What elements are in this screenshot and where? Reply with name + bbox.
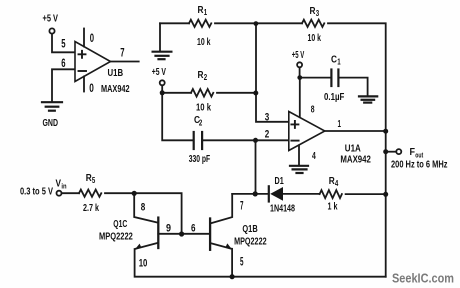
- svg-text:10 k: 10 k: [308, 33, 322, 44]
- svg-text:0.1µF: 0.1µF: [324, 92, 344, 103]
- svg-text:7: 7: [240, 201, 244, 213]
- svg-text:Q1B: Q1B: [242, 223, 258, 235]
- svg-text:out: out: [415, 150, 423, 159]
- svg-text:6: 6: [191, 223, 196, 235]
- svg-text:5: 5: [240, 256, 244, 268]
- svg-text:2: 2: [204, 73, 208, 82]
- svg-text:2: 2: [265, 129, 270, 141]
- svg-text:3: 3: [265, 111, 270, 123]
- svg-text:5: 5: [92, 176, 96, 185]
- svg-text:MPQ2222: MPQ2222: [234, 236, 267, 248]
- svg-text:330 pF: 330 pF: [189, 154, 211, 165]
- svg-text:1: 1: [204, 8, 208, 17]
- svg-text:0: 0: [89, 83, 94, 95]
- svg-text:1: 1: [338, 118, 342, 130]
- svg-text:0.3 to 5 V: 0.3 to 5 V: [20, 186, 53, 197]
- svg-text:0: 0: [90, 33, 94, 45]
- svg-text:7: 7: [120, 46, 125, 60]
- svg-text:9: 9: [166, 223, 171, 235]
- svg-text:GND: GND: [43, 117, 59, 129]
- svg-text:MAX942: MAX942: [340, 154, 371, 166]
- svg-text:U1B: U1B: [108, 67, 124, 79]
- svg-text:SeekIC.com: SeekIC.com: [392, 271, 454, 286]
- svg-text:in: in: [61, 181, 67, 190]
- svg-text:10: 10: [139, 258, 148, 270]
- svg-text:Q1C: Q1C: [113, 218, 127, 230]
- svg-text:10 k: 10 k: [197, 37, 211, 48]
- svg-text:MAX942: MAX942: [101, 83, 130, 95]
- svg-text:10 k: 10 k: [196, 103, 211, 114]
- svg-text:2: 2: [199, 118, 203, 127]
- svg-text:8: 8: [311, 104, 315, 116]
- svg-text:1 k: 1 k: [328, 202, 338, 213]
- svg-text:1N4148: 1N4148: [270, 203, 295, 215]
- svg-text:+5 V: +5 V: [43, 13, 59, 25]
- svg-text:4: 4: [312, 150, 316, 162]
- svg-text:5: 5: [61, 37, 66, 51]
- svg-text:1: 1: [337, 58, 341, 67]
- svg-text:MPQ2222: MPQ2222: [99, 231, 133, 243]
- svg-text:V: V: [56, 177, 62, 189]
- svg-text:200 Hz to 6 MHz: 200 Hz to 6 MHz: [391, 160, 448, 171]
- svg-text:6: 6: [61, 56, 66, 70]
- svg-text:8: 8: [141, 202, 146, 214]
- svg-text:3: 3: [316, 9, 320, 18]
- svg-text:4: 4: [335, 179, 339, 188]
- svg-text:D1: D1: [275, 175, 284, 187]
- svg-text:+5 V: +5 V: [152, 66, 166, 78]
- svg-text:+5 V: +5 V: [292, 49, 305, 61]
- svg-text:2.7 k: 2.7 k: [83, 203, 99, 214]
